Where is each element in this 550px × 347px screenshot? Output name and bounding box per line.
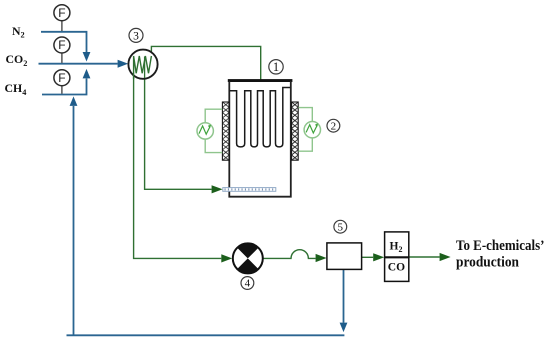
svg-text:To E-chemicals’: To E-chemicals’	[456, 238, 545, 254]
wire right heater loop	[298, 108, 312, 152]
flow indicator F on CH4	[54, 70, 70, 86]
heater element right hatched bar	[292, 102, 299, 160]
pump P4 bottom sector	[237, 258, 258, 273]
wire exchanger to pump	[134, 75, 222, 258]
arrow into sparger	[212, 185, 223, 193]
svg-text:production: production	[456, 255, 520, 271]
arrow into H2/CO stream box	[373, 253, 384, 261]
label circled 2	[327, 119, 340, 132]
sparger tube	[223, 188, 276, 192]
svg-text:3: 3	[133, 30, 139, 42]
label circled 5	[334, 220, 347, 233]
svg-text:5: 5	[338, 221, 344, 233]
wire CO2 feed line	[39, 63, 118, 65]
svg-text:CO: CO	[388, 261, 405, 273]
arrow CO2 into exchanger	[118, 60, 129, 68]
pump P4 circle	[233, 243, 263, 273]
power source left heater circle	[197, 123, 213, 139]
heat exchanger U3 circle	[128, 50, 157, 79]
power source right heater arrowhead	[315, 123, 318, 127]
svg-text:4: 4	[245, 278, 251, 290]
flow indicator F on N2 stem	[61, 21, 63, 31]
wire drop from separator box	[343, 269, 345, 322]
label circled 1	[269, 60, 283, 74]
pump P4 top sector	[237, 243, 258, 258]
arrow into box 5	[316, 254, 327, 262]
svg-text:N2: N2	[12, 24, 25, 40]
wire reactor product to exchanger (hot line)	[151, 46, 260, 79]
separator box 5	[327, 243, 362, 270]
svg-text:1: 1	[273, 60, 279, 74]
flow indicator F on N2	[54, 5, 70, 21]
heat exchanger U3 coil zigzag	[134, 56, 152, 79]
H2/CO stream box	[385, 232, 409, 282]
label circled 4	[241, 277, 254, 290]
H2/CO stream box divider	[385, 256, 409, 258]
svg-text:CO2: CO2	[6, 52, 28, 68]
power source left heater zigzag	[199, 126, 210, 134]
heat exchanger U3 inner tube stub	[144, 57, 146, 79]
label circled 3	[129, 28, 143, 42]
power source right heater circle	[304, 122, 320, 138]
wire recycle return (bottom + riser)	[67, 106, 345, 335]
arrow CH4 into CO2 line	[83, 69, 91, 79]
svg-text:F: F	[58, 71, 65, 85]
svg-text:2: 2	[331, 120, 337, 132]
wire exchanger to sparger	[145, 75, 212, 189]
flow indicator F on CH4 stem	[61, 86, 63, 94]
flow indicator F on CO2	[54, 37, 70, 53]
reactor R1 top plate	[228, 79, 293, 82]
svg-text:F: F	[58, 38, 65, 52]
flow indicator F on CO2 stem	[61, 53, 63, 63]
reactor R1 internal serpentine fins	[230, 88, 291, 147]
wire product stream to text	[409, 256, 440, 258]
arrow to E-chemicals production	[440, 253, 451, 261]
svg-text:CH4: CH4	[5, 81, 27, 97]
wire box 5 outlet	[362, 256, 374, 258]
sparger holes	[225, 188, 276, 190]
power source right heater zigzag	[306, 125, 317, 133]
wire N2 feed line	[41, 32, 87, 53]
wire CH4 feed line	[42, 79, 87, 95]
heater element left hatched bar	[222, 102, 229, 160]
reactor R1 shell	[229, 81, 290, 197]
svg-text:F: F	[58, 6, 65, 20]
arrow into pump	[221, 254, 232, 262]
arrow N2 into CO2 line	[83, 52, 91, 62]
wire pump outlet with loop seal bump	[263, 250, 316, 259]
arrow recycle into CH4 line	[70, 96, 78, 106]
arrow drop into bottom line	[340, 323, 348, 333]
wire left heater loop	[205, 109, 222, 152]
power source left heater arrowhead	[208, 125, 211, 129]
